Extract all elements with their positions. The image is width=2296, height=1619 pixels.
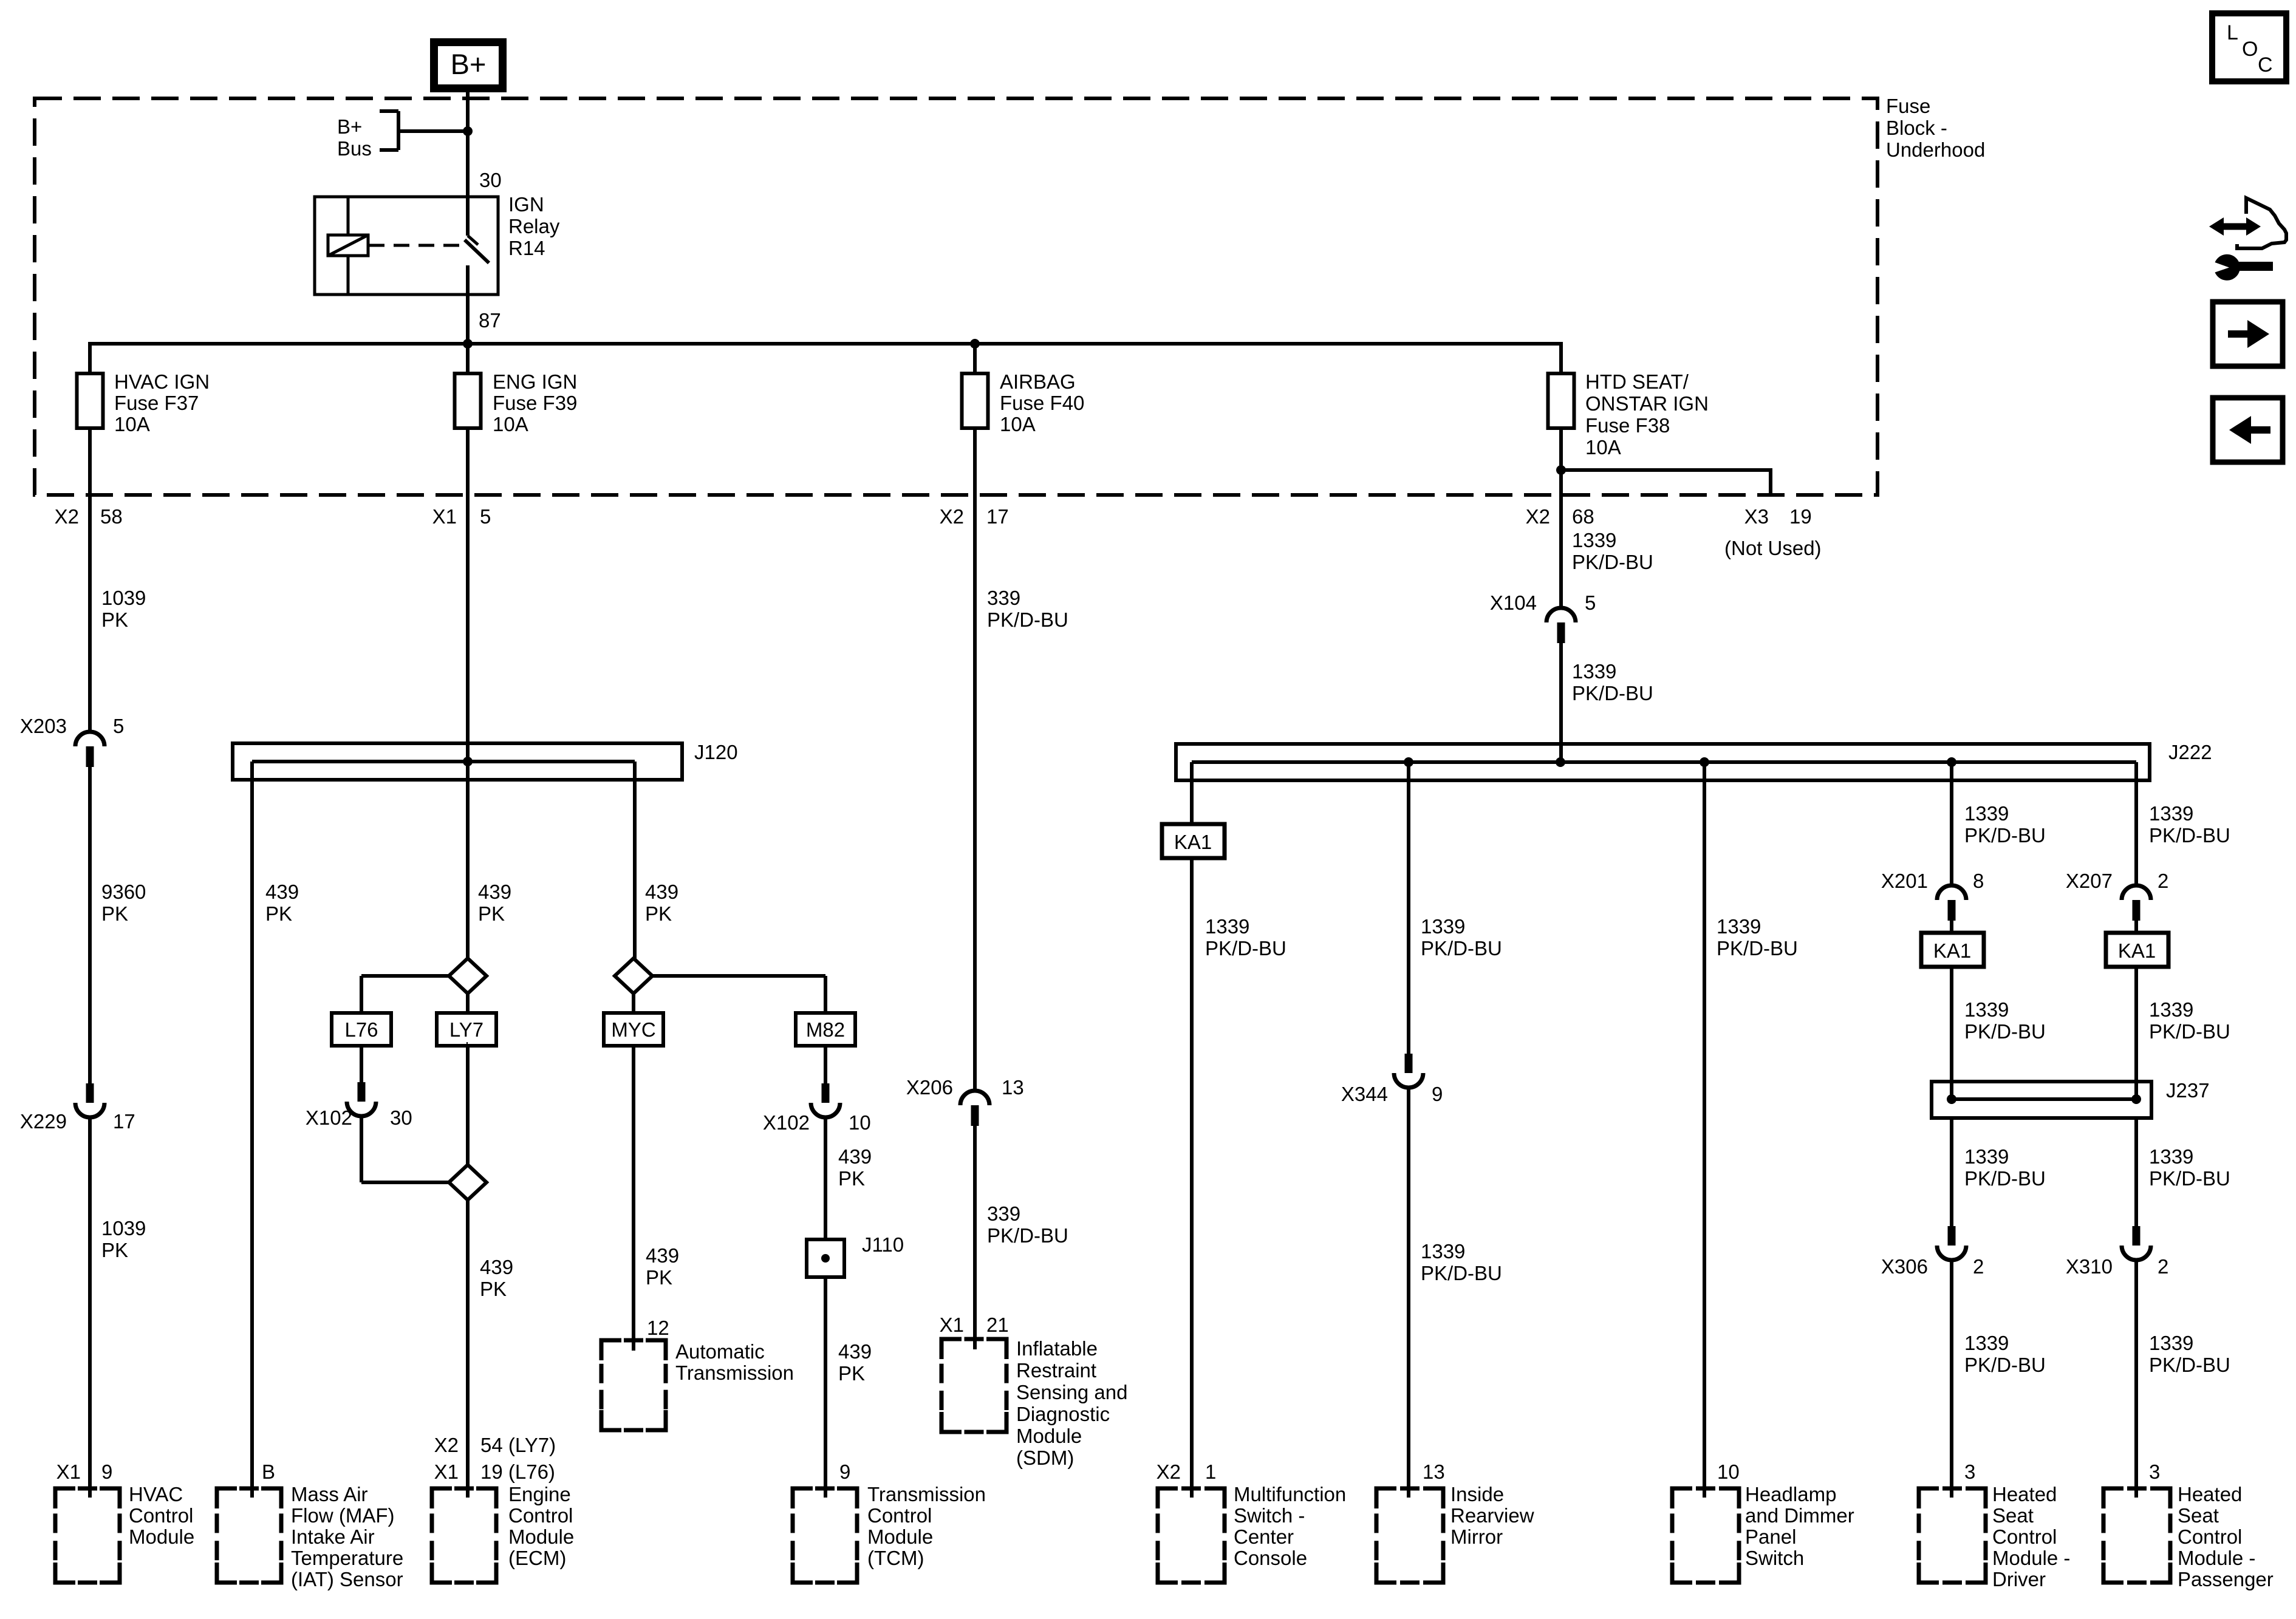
svg-text:9: 9	[1432, 1083, 1443, 1105]
svg-text:B: B	[262, 1461, 275, 1483]
wire fuse F38 to node	[1559, 426, 1563, 534]
wire X203 to X229	[88, 767, 92, 1083]
wire X206 to SDM	[973, 1126, 977, 1349]
wire X102-10 to J110	[824, 1117, 827, 1241]
splice diamond upper (engine codes)	[449, 958, 487, 994]
svg-text:KA1: KA1	[1174, 831, 1212, 853]
module SDM box	[941, 1339, 962, 1359]
icon LOC box	[2212, 13, 2286, 81]
svg-text:PK/D-BU: PK/D-BU	[1964, 1354, 2046, 1376]
svg-text:Intake Air: Intake Air	[291, 1525, 375, 1548]
junction dot J222 headlamp branch	[1700, 757, 1709, 767]
wire KA1 to multifunction switch	[1190, 856, 1194, 1498]
junction dot J222 feed	[1556, 757, 1565, 767]
svg-text:X104: X104	[1490, 591, 1537, 614]
svg-text:KA1: KA1	[1933, 939, 1971, 962]
splice diamond transmission	[615, 958, 652, 994]
relay R14 switch	[466, 197, 470, 236]
svg-text:PK: PK	[101, 902, 128, 925]
power symbol B+	[434, 43, 503, 89]
junction dot J120 main	[463, 757, 473, 766]
svg-text:21: 21	[986, 1314, 1009, 1336]
wire J222 to X344	[1407, 762, 1410, 1054]
svg-text:Inflatable: Inflatable	[1016, 1337, 1098, 1360]
connector X310	[2133, 1226, 2141, 1246]
svg-text:PK: PK	[646, 1266, 672, 1289]
svg-text:X310: X310	[2066, 1255, 2113, 1278]
svg-text:1339: 1339	[2149, 1145, 2193, 1168]
module Heated Seat Control Module Passenger box	[2103, 1488, 2123, 1508]
svg-text:30: 30	[479, 169, 502, 191]
svg-text:M82: M82	[806, 1018, 845, 1041]
wire L76 to X102-30	[360, 1044, 363, 1082]
junction dot below fuse F38	[1556, 465, 1566, 475]
wire X201 to KA1 driver	[1950, 921, 1953, 935]
wire merge diamond to ECM	[466, 1199, 470, 1498]
svg-text:19 (L76): 19 (L76)	[480, 1461, 555, 1483]
wire J222 to X207	[2134, 762, 2138, 886]
wire bus to fuse F37	[88, 342, 92, 375]
svg-text:Fuse F38: Fuse F38	[1585, 414, 1670, 437]
svg-text:PK/D-BU: PK/D-BU	[2149, 1020, 2230, 1043]
svg-text:Mirror: Mirror	[1450, 1525, 1503, 1548]
svg-text:Fuse: Fuse	[1886, 95, 1930, 117]
wire J222 to X201	[1950, 762, 1953, 886]
svg-text:Underhood: Underhood	[1886, 138, 1985, 161]
svg-text:AIRBAG: AIRBAG	[1000, 370, 1076, 393]
svg-text:X1: X1	[56, 1461, 81, 1483]
svg-text:Fuse F40: Fuse F40	[1000, 392, 1084, 414]
splice J110	[807, 1239, 844, 1277]
svg-text:30: 30	[390, 1106, 412, 1129]
svg-text:Restraint: Restraint	[1016, 1359, 1096, 1382]
svg-text:Control: Control	[1992, 1525, 2057, 1548]
wire fuse F40 down	[973, 426, 977, 547]
svg-text:PK/D-BU: PK/D-BU	[1717, 937, 1798, 959]
svg-text:Module -: Module -	[1992, 1547, 2070, 1569]
svg-text:X2: X2	[1157, 1461, 1181, 1483]
svg-text:Panel: Panel	[1745, 1525, 1796, 1548]
wire J110 to TCM	[824, 1275, 827, 1498]
svg-text:Rearview: Rearview	[1450, 1504, 1534, 1527]
svg-text:Control: Control	[129, 1504, 193, 1527]
connector X102 pin 30	[358, 1082, 366, 1102]
wire J120 to MAF sensor	[250, 762, 254, 1498]
bus wire from relay 87	[90, 342, 1561, 346]
wire X104 to J222	[1559, 643, 1563, 762]
svg-text:Driver: Driver	[1992, 1568, 2046, 1590]
icon vehicle outline	[2237, 198, 2286, 248]
svg-text:439: 439	[838, 1145, 872, 1168]
svg-text:1339: 1339	[1964, 802, 2009, 825]
svg-text:8: 8	[1973, 870, 1984, 892]
svg-text:13: 13	[1002, 1076, 1024, 1099]
svg-text:X102: X102	[306, 1106, 352, 1129]
svg-text:2: 2	[2158, 870, 2168, 892]
svg-text:X2: X2	[940, 505, 964, 528]
svg-text:J222: J222	[2168, 741, 2212, 763]
svg-text:PK: PK	[480, 1278, 507, 1300]
wire J222 to headlamp switch	[1703, 762, 1706, 1498]
wire KA1 driver to J237	[1950, 965, 1953, 1099]
svg-text:Passenger: Passenger	[2178, 1568, 2274, 1590]
wire LY7 to merge diamond	[466, 1042, 468, 1046]
svg-text:R14: R14	[508, 237, 545, 259]
svg-text:Engine: Engine	[508, 1483, 571, 1505]
svg-text:ONSTAR IGN: ONSTAR IGN	[1585, 392, 1709, 415]
svg-text:PK/D-BU: PK/D-BU	[2149, 1167, 2230, 1190]
wire fuse F39 down to J120	[466, 426, 470, 762]
svg-text:Inside: Inside	[1450, 1483, 1504, 1505]
svg-text:Seat: Seat	[2178, 1504, 2219, 1527]
wire fuse F37 to X203	[88, 522, 92, 732]
svg-text:(Not Used): (Not Used)	[1724, 537, 1822, 559]
svg-text:Flow (MAF): Flow (MAF)	[291, 1504, 394, 1527]
connector X207	[2122, 885, 2151, 900]
J222 internal bus	[1192, 760, 2136, 764]
svg-text:Module: Module	[867, 1525, 933, 1548]
svg-text:X2: X2	[55, 505, 79, 528]
svg-text:Center: Center	[1234, 1525, 1294, 1548]
connector X201	[1937, 885, 1966, 900]
svg-text:X207: X207	[2066, 870, 2113, 892]
module Inside Rearview Mirror box	[1376, 1488, 1396, 1508]
option box M82	[796, 1013, 855, 1046]
svg-text:X102: X102	[763, 1111, 810, 1134]
svg-text:339: 339	[987, 587, 1020, 609]
svg-text:5: 5	[480, 505, 491, 528]
option box KA1 (multifunction)	[1162, 824, 1225, 858]
J237 internal bus	[1952, 1097, 2136, 1101]
svg-text:J237: J237	[2166, 1079, 2210, 1102]
svg-text:Module: Module	[1016, 1425, 1082, 1447]
svg-text:Transmission: Transmission	[675, 1362, 794, 1384]
splice pack J222	[1176, 744, 2150, 780]
svg-text:1339: 1339	[1572, 660, 1616, 683]
svg-text:PK/D-BU: PK/D-BU	[2149, 824, 2230, 847]
fuse F38	[1548, 373, 1574, 428]
svg-text:5: 5	[113, 715, 124, 737]
fuse F39	[455, 373, 481, 428]
wire J222 to KA1 (multifunction)	[1190, 762, 1194, 826]
svg-text:PK: PK	[101, 1239, 128, 1261]
svg-text:Switch: Switch	[1745, 1547, 1804, 1569]
svg-text:MYC: MYC	[611, 1018, 655, 1041]
svg-text:C: C	[2258, 53, 2273, 77]
svg-text:X1: X1	[432, 505, 457, 528]
svg-text:1339: 1339	[1421, 1240, 1465, 1263]
wire bus to fuse F40	[973, 342, 977, 375]
svg-text:Control: Control	[867, 1504, 932, 1527]
svg-text:3: 3	[2149, 1461, 2160, 1483]
svg-text:1339: 1339	[1421, 915, 1465, 938]
svg-text:O: O	[2242, 38, 2258, 61]
svg-text:5: 5	[1585, 591, 1596, 614]
wire X306 to driver module	[1950, 1259, 1953, 1498]
wire X344 to mirror	[1407, 1087, 1410, 1498]
module Multifunction Switch box	[1158, 1488, 1178, 1508]
connector X102 pin 10	[822, 1083, 830, 1103]
svg-text:54 (LY7): 54 (LY7)	[480, 1434, 556, 1456]
svg-text:68: 68	[1572, 505, 1594, 528]
svg-text:Module: Module	[508, 1525, 574, 1548]
junction dot J237 driver	[1947, 1094, 1956, 1104]
svg-text:KA1: KA1	[2118, 939, 2156, 962]
svg-text:PK/D-BU: PK/D-BU	[1572, 551, 1653, 573]
svg-text:1339: 1339	[1205, 915, 1249, 938]
svg-text:PK: PK	[101, 608, 128, 631]
svg-text:PK/D-BU: PK/D-BU	[1964, 824, 2046, 847]
svg-text:58: 58	[100, 505, 123, 528]
option box LY7	[437, 1013, 496, 1046]
junction dot bus at relay	[463, 339, 473, 349]
wire KA1 passenger to J237	[2134, 965, 2138, 1099]
svg-text:10: 10	[1717, 1461, 1740, 1483]
svg-text:10A: 10A	[1000, 413, 1036, 435]
wire B+ to relay pin 30	[466, 88, 470, 198]
junction dot bus at airbag fuse	[970, 339, 980, 349]
svg-text:Multifunction: Multifunction	[1234, 1483, 1346, 1505]
svg-text:10A: 10A	[1585, 436, 1621, 458]
relay R14 dashed link	[369, 244, 460, 247]
wire fuse F37 to connector X2-58	[88, 426, 92, 547]
icon back arrow box	[2213, 398, 2283, 462]
svg-text:(SDM): (SDM)	[1016, 1447, 1074, 1469]
svg-text:(TCM): (TCM)	[867, 1547, 924, 1569]
connector X104	[1546, 608, 1576, 622]
wire MYC to automatic transmission	[632, 1044, 635, 1351]
svg-text:PK/D-BU: PK/D-BU	[2149, 1354, 2230, 1376]
svg-text:HVAC IGN: HVAC IGN	[114, 370, 210, 393]
svg-text:PK/D-BU: PK/D-BU	[1421, 1262, 1502, 1284]
svg-text:1339: 1339	[1964, 998, 2009, 1021]
J120 internal bus	[252, 760, 635, 763]
svg-text:Diagnostic: Diagnostic	[1016, 1403, 1110, 1425]
svg-text:PK: PK	[645, 902, 672, 925]
svg-text:Temperature: Temperature	[291, 1547, 403, 1569]
svg-text:Relay: Relay	[508, 215, 560, 237]
svg-text:HVAC: HVAC	[129, 1483, 183, 1505]
svg-text:1339: 1339	[2149, 998, 2193, 1021]
svg-text:PK/D-BU: PK/D-BU	[987, 608, 1068, 631]
svg-text:439: 439	[478, 881, 511, 903]
svg-text:1339: 1339	[1964, 1332, 2009, 1354]
svg-text:ENG IGN: ENG IGN	[493, 370, 577, 393]
svg-text:HTD SEAT/: HTD SEAT/	[1585, 370, 1689, 393]
svg-text:Fuse F37: Fuse F37	[114, 392, 199, 414]
wire J120 to splice diamond	[466, 762, 470, 959]
relay R14 coil	[347, 197, 350, 235]
svg-text:87: 87	[479, 309, 501, 332]
svg-text:Heated: Heated	[2178, 1483, 2242, 1505]
icon wrench	[2215, 254, 2240, 281]
connector X344	[1405, 1054, 1413, 1073]
svg-text:13: 13	[1423, 1461, 1445, 1483]
svg-text:Headlamp: Headlamp	[1745, 1483, 1836, 1505]
svg-text:PK/D-BU: PK/D-BU	[1964, 1167, 2046, 1190]
svg-text:1039: 1039	[101, 1217, 146, 1239]
splice pack J237	[1932, 1082, 2151, 1118]
fuse block dashed border (Fuse Block - Underhood)	[35, 98, 1877, 495]
svg-text:Block -: Block -	[1886, 117, 1947, 139]
svg-text:Sensing and: Sensing and	[1016, 1381, 1127, 1403]
svg-text:1339: 1339	[2149, 802, 2193, 825]
branch wire to M82	[651, 974, 825, 978]
connector X229	[86, 1083, 94, 1103]
svg-text:439: 439	[838, 1340, 872, 1363]
wire bus to fuse F39	[466, 342, 470, 375]
svg-text:2: 2	[2158, 1255, 2168, 1278]
junction dot J222 mirror branch	[1404, 757, 1413, 767]
svg-text:IGN: IGN	[508, 193, 544, 216]
svg-text:1339: 1339	[1572, 529, 1616, 551]
svg-text:Heated: Heated	[1992, 1483, 2057, 1505]
svg-text:439: 439	[646, 1244, 679, 1267]
icon double arrow	[2221, 223, 2249, 230]
wire diamond to MYC	[632, 992, 635, 1015]
junction dot J237 passenger	[2131, 1094, 2141, 1104]
wire fuse F40 to X206	[973, 522, 977, 1091]
wire relay 87 to bus	[466, 295, 470, 344]
wire J120 right branch down	[633, 762, 637, 959]
svg-text:Console: Console	[1234, 1547, 1307, 1569]
B+ Bus stub bracket	[397, 111, 400, 150]
svg-text:2: 2	[1973, 1255, 1984, 1278]
option box MYC	[604, 1013, 663, 1046]
svg-text:Module -: Module -	[2178, 1547, 2255, 1569]
wire X229 to HVAC module	[88, 1117, 92, 1498]
svg-text:B+: B+	[337, 115, 362, 138]
svg-text:12: 12	[647, 1317, 669, 1339]
svg-text:1339: 1339	[1964, 1145, 2009, 1168]
svg-text:B+: B+	[451, 48, 487, 80]
junction dot B+ bus node	[463, 126, 473, 136]
junction dot J222 driver branch	[1947, 757, 1956, 767]
relay R14 box	[315, 197, 498, 295]
svg-text:(ECM): (ECM)	[508, 1547, 566, 1569]
svg-text:439: 439	[645, 881, 678, 903]
svg-text:439: 439	[265, 881, 299, 903]
svg-text:L: L	[2227, 21, 2238, 44]
option box L76	[332, 1013, 391, 1046]
svg-text:17: 17	[986, 505, 1009, 528]
svg-text:J110: J110	[862, 1233, 904, 1256]
svg-text:Control: Control	[508, 1504, 573, 1527]
svg-text:Seat: Seat	[1992, 1504, 2034, 1527]
svg-text:10: 10	[849, 1111, 871, 1134]
wire diamond to LY7	[466, 992, 470, 1015]
wire X102-30 to merge diamond	[360, 1116, 363, 1182]
connector X203	[75, 732, 104, 746]
svg-text:X1: X1	[940, 1314, 964, 1336]
module TCM box	[793, 1488, 813, 1508]
svg-text:Bus: Bus	[337, 137, 372, 160]
svg-text:X206: X206	[906, 1076, 953, 1099]
svg-text:X201: X201	[1881, 870, 1928, 892]
branch wire to L76	[361, 974, 450, 978]
module MAF/IAT sensor box	[217, 1488, 237, 1508]
module HVAC Control Module box	[55, 1488, 75, 1508]
svg-text:X344: X344	[1341, 1083, 1388, 1105]
svg-text:X229: X229	[20, 1110, 67, 1133]
splice pack J120	[233, 743, 682, 780]
fuse F40	[962, 373, 988, 428]
svg-text:Fuse F39: Fuse F39	[493, 392, 577, 414]
svg-text:PK: PK	[838, 1362, 865, 1385]
svg-text:PK/D-BU: PK/D-BU	[1205, 937, 1286, 959]
svg-text:1339: 1339	[2149, 1332, 2193, 1354]
svg-text:PK/D-BU: PK/D-BU	[1421, 937, 1502, 959]
svg-text:9: 9	[101, 1461, 112, 1483]
svg-text:and Dimmer: and Dimmer	[1745, 1504, 1854, 1527]
svg-text:9: 9	[839, 1461, 850, 1483]
svg-text:Automatic: Automatic	[675, 1340, 765, 1363]
module Automatic Transmission box	[601, 1340, 621, 1360]
wire X310 to passenger module	[2134, 1259, 2138, 1498]
svg-text:439: 439	[480, 1256, 513, 1278]
svg-text:339: 339	[987, 1202, 1020, 1225]
icon forward arrow box	[2213, 302, 2283, 366]
svg-text:10A: 10A	[114, 413, 150, 435]
wire J237 to X310	[2134, 1118, 2138, 1226]
svg-text:PK: PK	[478, 902, 505, 925]
svg-text:10A: 10A	[493, 413, 528, 435]
wire M82 to X102-10	[824, 1044, 827, 1083]
svg-text:1: 1	[1205, 1461, 1216, 1483]
svg-text:1339: 1339	[1717, 915, 1761, 938]
svg-text:X2: X2	[1526, 505, 1550, 528]
svg-text:Module: Module	[129, 1525, 194, 1548]
module Heated Seat Control Module Driver box	[1919, 1488, 1939, 1508]
svg-text:PK: PK	[265, 902, 292, 925]
svg-text:X3: X3	[1744, 505, 1769, 528]
wire bus corner to fuse F38	[1559, 342, 1563, 375]
svg-text:PK/D-BU: PK/D-BU	[987, 1224, 1068, 1247]
fuse F37	[77, 373, 103, 428]
module Headlamp and Dimmer Panel Switch box	[1672, 1488, 1692, 1508]
svg-text:PK/D-BU: PK/D-BU	[1572, 682, 1653, 704]
svg-text:X1: X1	[434, 1461, 459, 1483]
svg-text:1039: 1039	[101, 587, 146, 609]
wire X207 to KA1 passenger	[2134, 921, 2138, 935]
splice diamond lower (merge)	[449, 1165, 487, 1200]
svg-text:PK/D-BU: PK/D-BU	[1964, 1020, 2046, 1043]
svg-text:Control: Control	[2178, 1525, 2242, 1548]
option box KA1 (passenger)	[2106, 933, 2168, 967]
svg-text:3: 3	[1964, 1461, 1975, 1483]
wire to X3 pin 19 stub	[1561, 468, 1771, 472]
svg-text:PK: PK	[838, 1167, 865, 1190]
svg-text:J120: J120	[694, 741, 738, 763]
svg-text:Switch -: Switch -	[1234, 1504, 1305, 1527]
svg-text:X306: X306	[1881, 1255, 1928, 1278]
wire B+ Bus to node	[398, 129, 468, 133]
svg-text:Mass Air: Mass Air	[291, 1483, 368, 1505]
svg-text:Transmission: Transmission	[867, 1483, 986, 1505]
option box KA1 (driver)	[1921, 933, 1984, 967]
svg-text:X2: X2	[434, 1434, 459, 1456]
module ECM box	[432, 1488, 452, 1508]
svg-text:19: 19	[1789, 505, 1812, 528]
svg-text:LY7: LY7	[449, 1018, 483, 1041]
svg-text:L76: L76	[344, 1018, 378, 1041]
connector X206	[960, 1091, 989, 1105]
svg-text:X203: X203	[20, 715, 67, 737]
svg-text:17: 17	[113, 1110, 135, 1133]
wire fuse F38 to X104	[1559, 522, 1563, 608]
wire J237 to X306	[1950, 1118, 1953, 1226]
connector X306	[1948, 1226, 1956, 1246]
